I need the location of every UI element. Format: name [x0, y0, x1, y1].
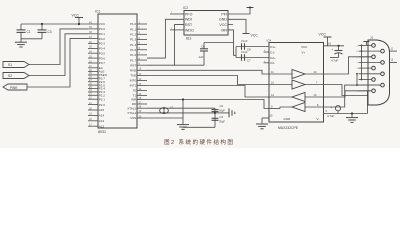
svg-text:GND: GND: [284, 117, 292, 121]
svg-text:P0.5: P0.5: [99, 51, 106, 55]
max232 box: [269, 43, 324, 123]
svg-text:C3: C3: [48, 30, 52, 34]
svg-text:P0.6: P0.6: [99, 56, 106, 60]
svg-text:P1.7: P1.7: [130, 58, 137, 62]
wire under IC2: [204, 42, 234, 44]
ground under max232: [256, 123, 268, 125]
wire RST rail extension: [175, 64, 205, 66]
wire RST loop to MCU RST: [147, 25, 184, 66]
svg-text:P1.3: P1.3: [130, 38, 137, 42]
max232 V- wire: [324, 113, 368, 115]
svg-text:C1-: C1-: [270, 50, 275, 54]
capacitor C4: [212, 117, 219, 119]
svg-text:Y1: Y1: [170, 105, 174, 109]
wire VCC rail top-left: [21, 23, 88, 25]
mcu IC1 box: [98, 14, 137, 128]
wire S1 to P0.1: [29, 29, 88, 65]
svg-text:P0.3: P0.3: [99, 42, 106, 46]
wire DB9 handshake bus 1-4-6: [361, 45, 363, 79]
max232 pin stub 5: [264, 62, 270, 64]
svg-text:IC4: IC4: [267, 38, 272, 42]
wire TXD to max232 pin10: [147, 76, 269, 85]
capacitor C9 at V-: [335, 106, 340, 111]
ic2 pin stub VCC: [228, 24, 233, 26]
db9 exit wire second: [390, 61, 398, 63]
ground under C1: [20, 39, 22, 42]
svg-text:A14: A14: [99, 114, 105, 118]
wire WDI to P1.7: [147, 19, 184, 58]
ic2 pin stub PFO: [170, 13, 184, 15]
ic2 pin stub WDO: [170, 29, 184, 31]
svg-text:J1: J1: [370, 36, 374, 40]
wire R2IN from DB9: [324, 85, 381, 107]
wire PWR to P0.3: [27, 39, 88, 87]
wire MR down and under IC2: [228, 30, 234, 43]
svg-text:P0.0: P0.0: [99, 27, 106, 31]
svg-text:11: 11: [271, 70, 274, 74]
svg-text:C2+: C2+: [270, 56, 276, 60]
db9 exit wire top: [390, 50, 398, 52]
power VCC bar near IC2: [243, 33, 250, 35]
svg-text:6: 6: [326, 110, 328, 113]
svg-text:813: 813: [186, 36, 192, 40]
wire cap bottoms: [21, 38, 42, 40]
svg-text:A12: A12: [99, 124, 105, 128]
max232 pin 16 wire: [324, 45, 345, 47]
junction dot V- gnd: [351, 112, 353, 114]
svg-text:30pF: 30pF: [219, 108, 225, 112]
ic2 watchdog box: [184, 11, 228, 36]
svg-text:PFI: PFI: [221, 12, 227, 16]
svg-text:A13: A13: [99, 119, 105, 123]
svg-text:11: 11: [391, 47, 394, 50]
svg-text:INT0: INT0: [130, 79, 137, 83]
svg-text:12: 12: [391, 59, 394, 62]
crystal Y1: [163, 108, 165, 113]
wire T1OUT to DB9 pin2: [324, 57, 372, 74]
svg-text:RST: RST: [185, 23, 193, 27]
svg-text:XTAL2: XTAL2: [127, 106, 136, 110]
svg-text:10: 10: [271, 80, 274, 84]
wire DB9 handshake bus 7-8: [356, 74, 358, 85]
svg-text:14: 14: [314, 70, 317, 74]
mcu IC1 right pins comb: [137, 23, 147, 25]
svg-text:C4: C4: [220, 115, 224, 119]
svg-text:P0.2: P0.2: [99, 37, 106, 41]
svg-text:C1: C1: [27, 30, 31, 34]
svg-text:+: +: [331, 106, 333, 110]
svg-text:C2-: C2-: [270, 61, 275, 65]
capacitor C7: [241, 54, 243, 61]
wire XTAL2 row: [147, 107, 215, 109]
ground under mcu: [177, 124, 189, 126]
wire MR rail to cap block: [234, 43, 237, 56]
svg-text:VCC: VCC: [251, 34, 259, 38]
wire PFI up to power flag: [228, 8, 250, 15]
max232 pin stub 3: [264, 51, 270, 53]
svg-text:4: 4: [357, 80, 359, 82]
svg-text:1: 1: [357, 45, 359, 47]
svg-text:7: 7: [316, 80, 318, 84]
wire RXD to max232 pin11: [147, 70, 269, 74]
buffer T2 in max232: [292, 80, 305, 89]
wire S2 to P0.2: [29, 34, 88, 76]
db9 connector shell: [368, 40, 390, 105]
wire INT1 row to max232 pin12: [147, 86, 269, 98]
svg-text:4.7uF: 4.7uF: [327, 114, 334, 118]
wire XTAL1 row: [147, 112, 215, 114]
receiver R1 in max232: [292, 93, 305, 102]
svg-text:P0.1: P0.1: [99, 32, 106, 36]
wire V- net up to DB9 gnd: [367, 91, 369, 114]
junction dot ground rail: [182, 98, 184, 100]
capacitor C3: [41, 24, 43, 30]
junction dot vcc cap: [337, 45, 339, 47]
svg-text:图2 系统的硬件结构图: 图2 系统的硬件结构图: [164, 138, 234, 146]
svg-text:P1.1: P1.1: [130, 27, 137, 31]
svg-text:WDO: WDO: [185, 28, 194, 32]
sideways ground at crystal caps: [215, 112, 229, 114]
wire T2OUT to DB9 gnd bus: [324, 85, 368, 96]
svg-text:PFO: PFO: [185, 12, 193, 16]
svg-text:6: 6: [357, 51, 359, 53]
svg-text:1uF: 1uF: [199, 55, 204, 59]
svg-text:VCC: VCC: [319, 32, 327, 36]
svg-text:30pF: 30pF: [219, 120, 225, 124]
svg-text:16: 16: [328, 41, 331, 45]
svg-text:VSS: VSS: [130, 116, 136, 120]
svg-text:GND: GND: [219, 18, 227, 22]
wire WR row to max232 pin9: [147, 100, 269, 109]
capacitor C6: [203, 43, 205, 49]
wire C1+ row: [236, 46, 269, 48]
capacitor C5 at V+: [338, 46, 340, 51]
svg-text:MR: MR: [221, 28, 227, 32]
svg-text:P1.4: P1.4: [130, 43, 137, 47]
buffer T1 in max232: [292, 70, 305, 79]
svg-text:C6: C6: [201, 45, 205, 49]
svg-text:RXD: RXD: [130, 69, 137, 73]
svg-text:P1.0: P1.0: [130, 22, 137, 26]
svg-text:MAX232CPE: MAX232CPE: [278, 126, 299, 130]
svg-text:T0: T0: [133, 89, 137, 93]
port S2: [3, 73, 29, 79]
mcu IC1 left pins comb: [88, 23, 98, 25]
svg-text:VCC: VCC: [219, 23, 227, 27]
svg-text:A15: A15: [99, 108, 105, 112]
svg-text:P1.6: P1.6: [130, 53, 137, 57]
wire cap rail bottom: [183, 126, 215, 128]
svg-text:C2: C2: [220, 104, 224, 108]
svg-text:S1: S1: [8, 63, 12, 67]
max232 gnd pin: [262, 117, 269, 119]
svg-text:P1.2: P1.2: [130, 33, 137, 37]
svg-text:S2: S2: [8, 74, 12, 78]
svg-text:12: 12: [271, 93, 274, 97]
receiver R2 in max232: [292, 103, 305, 112]
capacitor C2: [212, 109, 219, 111]
db9 right pins: [381, 49, 385, 53]
wire R1IN from DB9: [324, 91, 372, 97]
svg-text:P0.4: P0.4: [99, 47, 106, 51]
svg-text:RST: RST: [130, 63, 136, 67]
db9 left pins: [372, 44, 376, 48]
svg-text:P1.5: P1.5: [130, 48, 137, 52]
capacitor C1: [20, 24, 22, 30]
power flag above PFI: [247, 7, 254, 9]
svg-text:IC1: IC1: [95, 10, 100, 14]
svg-text:VCC: VCC: [99, 22, 106, 26]
svg-text:0.1uF: 0.1uF: [241, 39, 248, 43]
wire cap block vertical: [235, 47, 237, 58]
svg-text:VCC: VCC: [72, 13, 80, 17]
svg-text:13: 13: [314, 93, 317, 97]
junction dot node VCC/C3: [41, 23, 43, 25]
svg-text:WDI: WDI: [185, 18, 192, 22]
capacitor C8: [241, 43, 243, 50]
svg-text:WR: WR: [131, 98, 137, 102]
wire GND pin down to VCC bar: [228, 19, 246, 33]
junction dot xtal1 rail: [214, 112, 216, 114]
svg-text:IC2: IC2: [183, 6, 188, 10]
svg-text:9: 9: [271, 104, 273, 108]
svg-text:P0.7: P0.7: [99, 61, 106, 65]
svg-text:4.7uF: 4.7uF: [331, 59, 338, 63]
svg-text:7: 7: [357, 62, 359, 64]
svg-text:8: 8: [357, 74, 359, 76]
svg-text:TXD: TXD: [130, 74, 137, 78]
svg-text:XTAL1: XTAL1: [127, 111, 136, 115]
wire VSS down: [147, 117, 183, 119]
svg-text:V+: V+: [302, 51, 306, 55]
ground at V- net: [351, 114, 353, 118]
svg-text:15: 15: [270, 114, 273, 118]
svg-text:+: +: [332, 47, 334, 51]
port PWR: [3, 84, 27, 90]
svg-text:C7: C7: [247, 59, 251, 63]
svg-text:8031: 8031: [98, 130, 106, 134]
svg-text:INT1: INT1: [130, 84, 137, 88]
svg-text:8: 8: [317, 103, 319, 107]
svg-text:V-: V-: [317, 117, 320, 121]
wire cap rail vertical: [214, 108, 216, 127]
svg-text:P2.1: P2.1: [99, 97, 106, 101]
svg-text:VCC: VCC: [301, 45, 308, 49]
svg-text:3: 3: [357, 68, 359, 70]
svg-text:PWR: PWR: [10, 86, 18, 90]
svg-text:P2.0: P2.0: [99, 103, 106, 107]
wire C2+ row: [236, 57, 269, 59]
port S1: [3, 62, 29, 68]
svg-text:0.1uF: 0.1uF: [241, 50, 248, 54]
power tick at DB9 pin1: [363, 41, 369, 43]
svg-text:C1+: C1+: [270, 45, 276, 49]
